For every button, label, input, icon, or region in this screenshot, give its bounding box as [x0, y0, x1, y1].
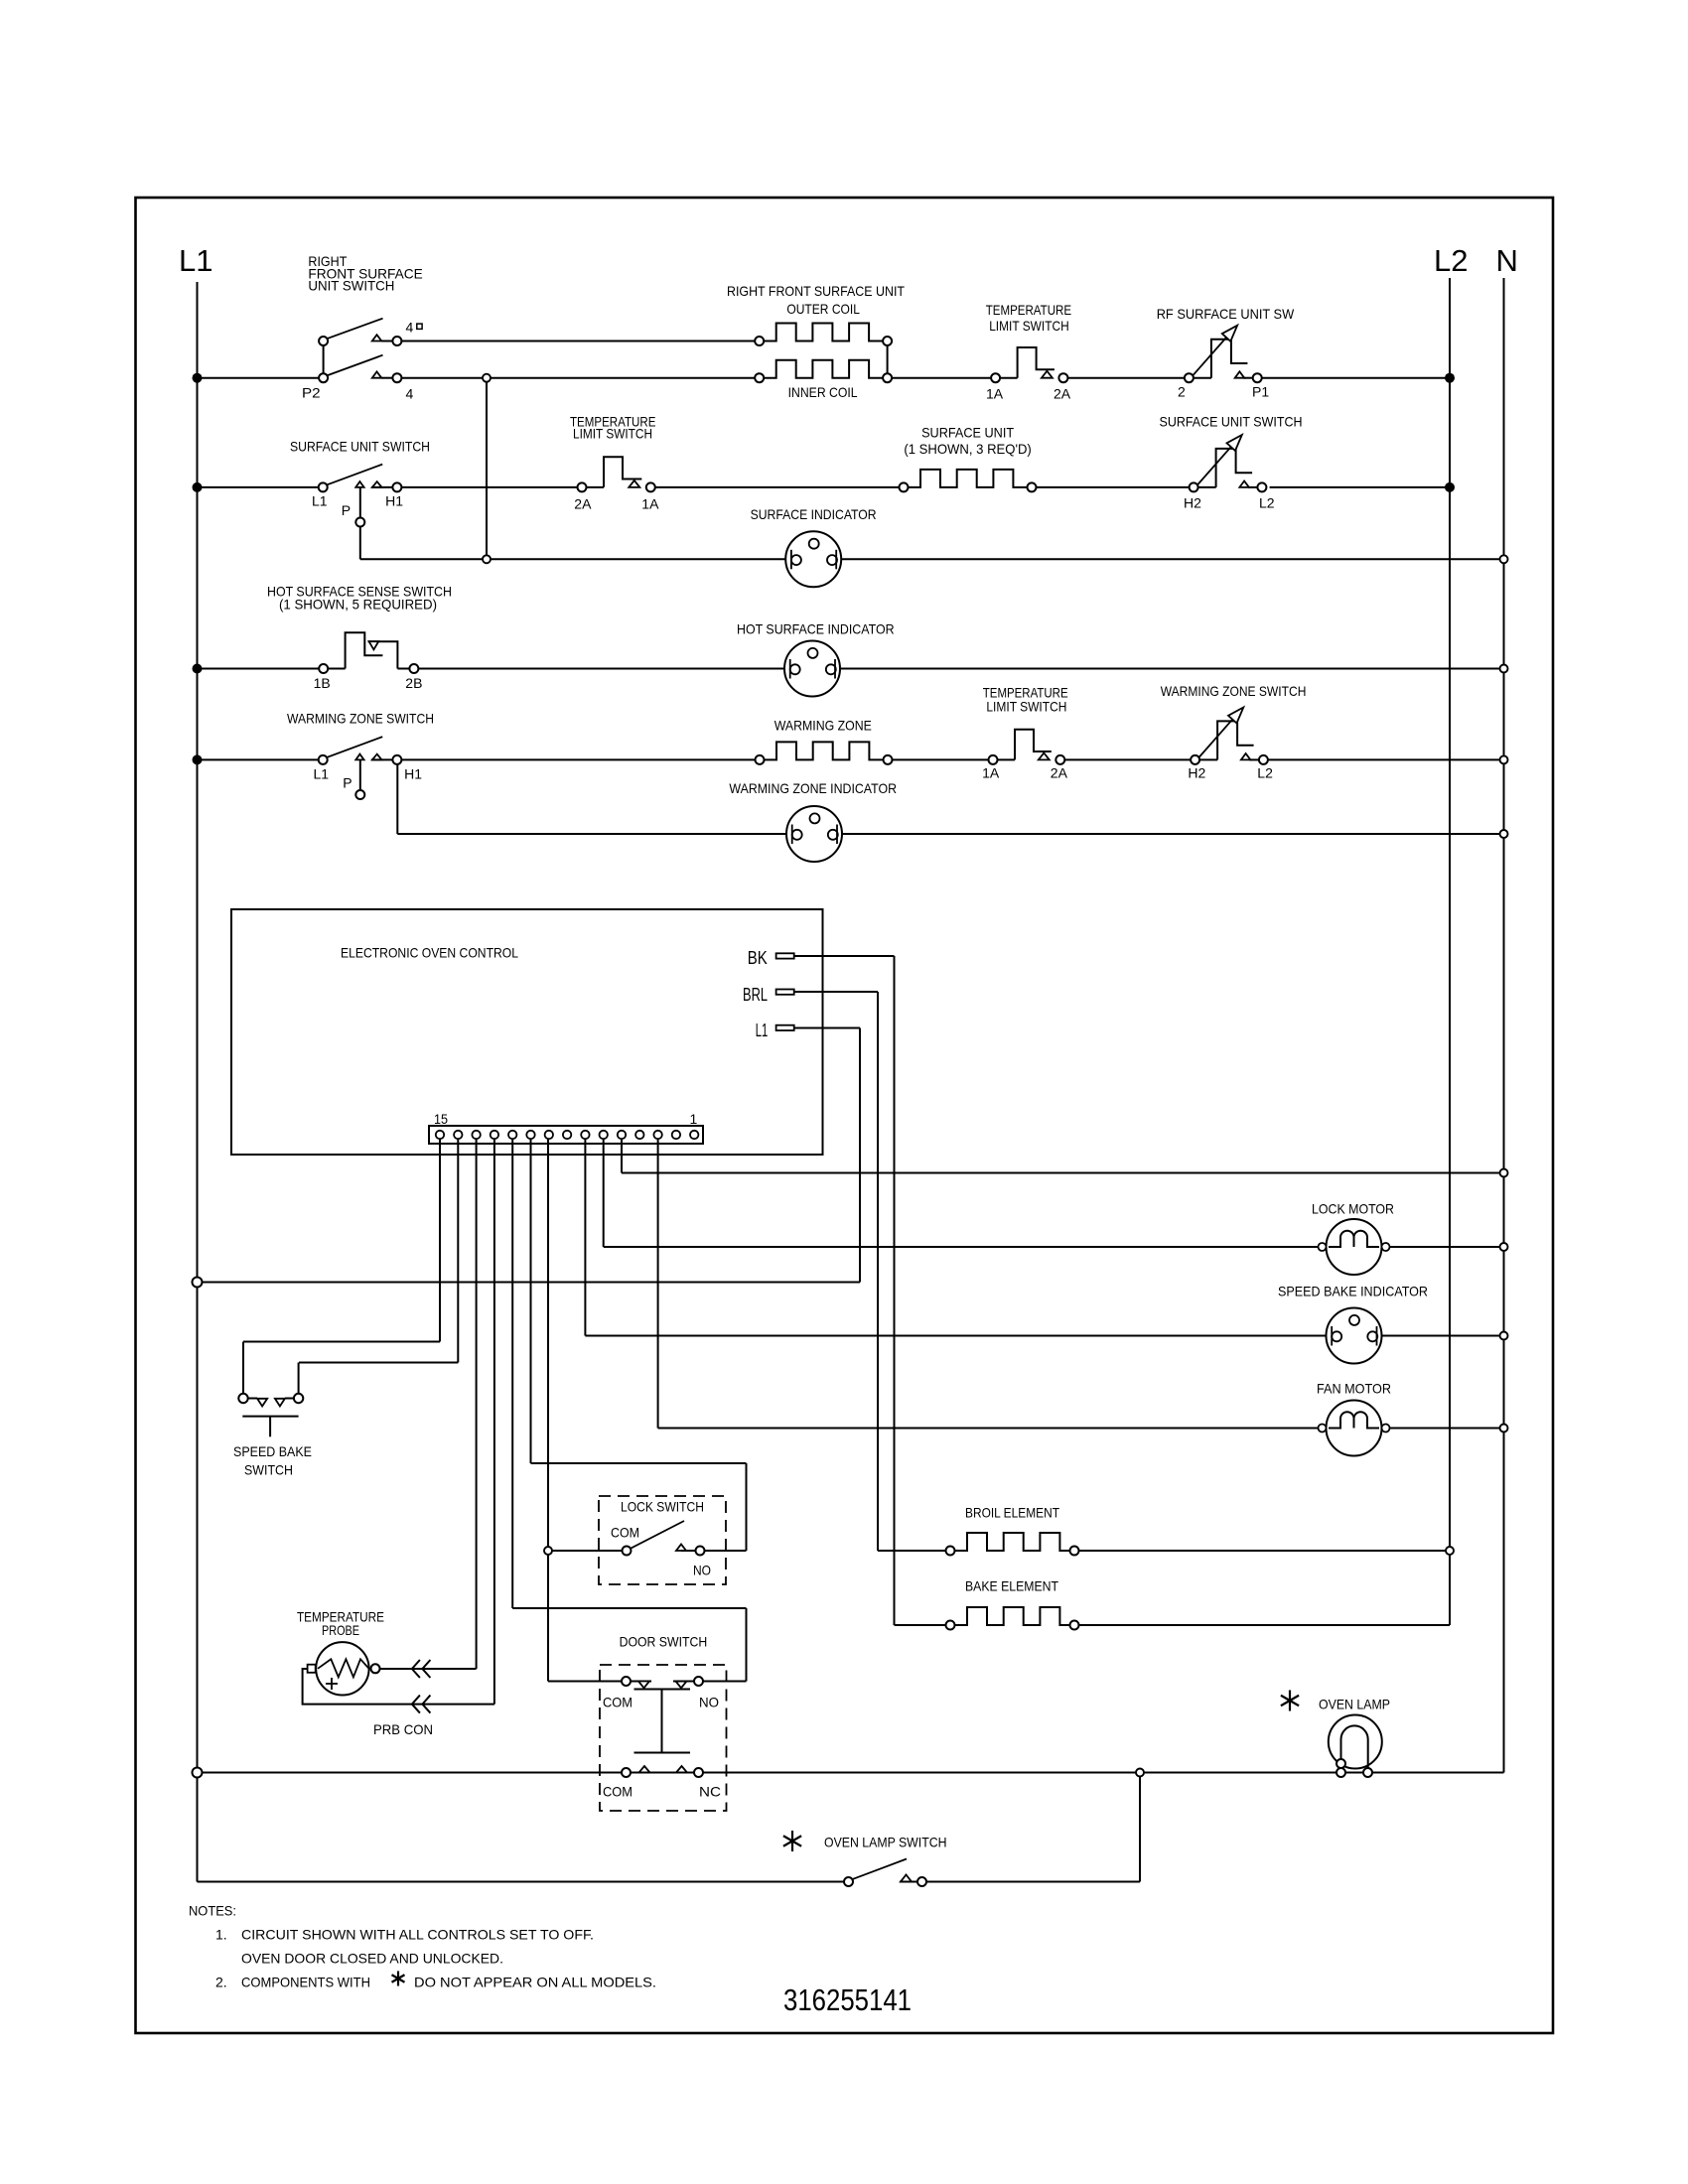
svg-text:PROBE: PROBE: [322, 1622, 359, 1638]
svg-text:WARMING ZONE SWITCH: WARMING ZONE SWITCH: [1161, 683, 1307, 699]
svg-text:BRL: BRL: [743, 985, 768, 1005]
svg-text:SWITCH: SWITCH: [244, 1462, 293, 1478]
svg-text:L1: L1: [312, 492, 328, 508]
svg-text:2B: 2B: [405, 675, 422, 691]
svg-text:L1: L1: [179, 243, 212, 278]
svg-text:LIMIT SWITCH: LIMIT SWITCH: [989, 318, 1068, 334]
svg-text:1B: 1B: [314, 675, 331, 691]
svg-text:2A: 2A: [1054, 385, 1071, 401]
svg-text:H1: H1: [404, 766, 422, 782]
svg-text:4: 4: [406, 385, 414, 401]
svg-text:N: N: [1496, 243, 1518, 278]
svg-text:UNIT SWITCH: UNIT SWITCH: [308, 278, 394, 294]
svg-text:LOCK MOTOR: LOCK MOTOR: [1312, 1201, 1394, 1217]
svg-text:BAKE ELEMENT: BAKE ELEMENT: [965, 1578, 1058, 1594]
svg-text:2A: 2A: [1051, 765, 1068, 781]
svg-text:FAN MOTOR: FAN MOTOR: [1317, 1381, 1391, 1397]
svg-text:1: 1: [690, 1111, 698, 1127]
svg-text:LIMIT SWITCH: LIMIT SWITCH: [986, 699, 1066, 715]
svg-text:CIRCUIT SHOWN WITH ALL CONTROL: CIRCUIT SHOWN WITH ALL CONTROLS SET TO O…: [241, 1927, 594, 1943]
svg-text:2A: 2A: [574, 496, 592, 512]
svg-text:2.: 2.: [215, 1975, 227, 1990]
svg-text:1A: 1A: [986, 385, 1004, 401]
svg-text:H2: H2: [1188, 765, 1205, 781]
svg-text:P1: P1: [1252, 384, 1269, 400]
svg-text:OVEN LAMP SWITCH: OVEN LAMP SWITCH: [824, 1835, 947, 1850]
svg-text:316255141: 316255141: [783, 1982, 912, 2017]
svg-text:(1 SHOWN, 5 REQUIRED): (1 SHOWN, 5 REQUIRED): [279, 597, 437, 613]
svg-text:LIMIT SWITCH: LIMIT SWITCH: [573, 426, 652, 442]
svg-text:SPEED BAKE INDICATOR: SPEED BAKE INDICATOR: [1278, 1284, 1428, 1299]
svg-text:NO: NO: [699, 1695, 719, 1710]
svg-text:WARMING ZONE INDICATOR: WARMING ZONE INDICATOR: [729, 780, 897, 796]
svg-text:15: 15: [434, 1111, 448, 1127]
svg-text:COM: COM: [603, 1784, 633, 1800]
svg-text:NO: NO: [693, 1563, 711, 1578]
svg-text:H1: H1: [385, 492, 403, 508]
svg-text:SURFACE UNIT SWITCH: SURFACE UNIT SWITCH: [290, 439, 430, 455]
svg-text:BK: BK: [748, 948, 768, 968]
svg-text:1A: 1A: [641, 496, 659, 512]
svg-text:L2: L2: [1434, 243, 1468, 278]
svg-text:SURFACE INDICATOR: SURFACE INDICATOR: [751, 506, 877, 522]
svg-text:L1: L1: [314, 766, 330, 782]
svg-text:BROIL ELEMENT: BROIL ELEMENT: [965, 1505, 1059, 1521]
svg-text:H2: H2: [1184, 495, 1201, 511]
svg-text:PRB CON: PRB CON: [373, 1721, 433, 1737]
svg-text:RF SURFACE UNIT SW: RF SURFACE UNIT SW: [1157, 306, 1295, 322]
svg-text:COM: COM: [611, 1525, 639, 1541]
svg-text:(1 SHOWN, 3 REQ'D): (1 SHOWN, 3 REQ'D): [904, 441, 1031, 457]
svg-text:INNER COIL: INNER COIL: [788, 384, 858, 400]
svg-text:HOT SURFACE INDICATOR: HOT SURFACE INDICATOR: [737, 621, 895, 637]
svg-text:1.: 1.: [215, 1927, 227, 1943]
svg-text:OVEN DOOR CLOSED AND UNLOCKED.: OVEN DOOR CLOSED AND UNLOCKED.: [241, 1951, 503, 1967]
svg-text:DO NOT APPEAR ON ALL MODELS.: DO NOT APPEAR ON ALL MODELS.: [414, 1975, 656, 1990]
svg-text:COMPONENTS WITH: COMPONENTS WITH: [241, 1975, 370, 1990]
svg-text:RIGHT FRONT SURFACE UNIT: RIGHT FRONT SURFACE UNIT: [727, 283, 905, 299]
svg-text:1A: 1A: [982, 765, 1000, 781]
svg-text:L2: L2: [1259, 495, 1275, 511]
svg-text:NC: NC: [699, 1784, 721, 1800]
svg-text:COM: COM: [603, 1695, 633, 1710]
svg-text:P: P: [343, 775, 352, 791]
svg-text:OVEN LAMP: OVEN LAMP: [1319, 1697, 1390, 1712]
svg-text:L1: L1: [756, 1021, 769, 1040]
svg-text:TEMPERATURE: TEMPERATURE: [986, 302, 1071, 318]
svg-text:NOTES:: NOTES:: [189, 1903, 236, 1919]
svg-text:SURFACE UNIT: SURFACE UNIT: [921, 425, 1014, 441]
svg-text:P2: P2: [302, 385, 321, 401]
svg-text:2: 2: [1178, 384, 1186, 400]
svg-text:L2: L2: [1257, 765, 1273, 781]
svg-text:OUTER COIL: OUTER COIL: [786, 301, 860, 317]
svg-text:WARMING ZONE: WARMING ZONE: [774, 718, 872, 734]
svg-text:SURFACE UNIT SWITCH: SURFACE UNIT SWITCH: [1160, 414, 1303, 430]
svg-text:ELECTRONIC OVEN CONTROL: ELECTRONIC OVEN CONTROL: [341, 945, 518, 961]
svg-text:P: P: [342, 502, 351, 518]
svg-text:LOCK SWITCH: LOCK SWITCH: [621, 1499, 704, 1515]
svg-text:DOOR SWITCH: DOOR SWITCH: [620, 1634, 708, 1650]
svg-text:SPEED BAKE: SPEED BAKE: [233, 1443, 312, 1459]
svg-text:4: 4: [406, 319, 414, 335]
svg-text:WARMING ZONE SWITCH: WARMING ZONE SWITCH: [287, 711, 434, 727]
